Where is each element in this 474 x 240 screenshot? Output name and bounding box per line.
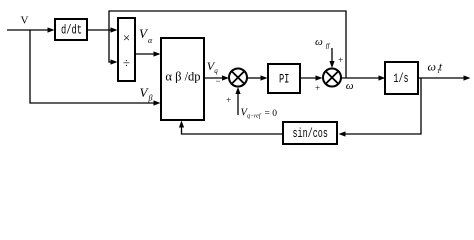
- block 1/s: [385, 62, 418, 94]
- wire V_q output to summing junction 1: [204, 75, 229, 80]
- wire sin/cos to alpha-beta/dp bottom: [179, 121, 283, 135]
- svg-text:β: β: [148, 94, 153, 103]
- wire V_q-ref input: [235, 87, 240, 115]
- wire V_alpha output: [135, 51, 161, 56]
- label omega_ff: [315, 36, 331, 50]
- svg-text:1/s: 1/s: [393, 71, 408, 86]
- svg-text:+: +: [226, 95, 231, 105]
- label V_q-ref = 0: [241, 108, 278, 120]
- block PI: [268, 64, 300, 93]
- svg-text:ω: ω: [315, 36, 323, 48]
- label V_alpha: [139, 26, 153, 45]
- wire omega_ff input: [329, 48, 334, 68]
- svg-text:q−ref: q−ref: [247, 113, 262, 120]
- summing junction 1: [229, 69, 247, 87]
- svg-text:+: +: [338, 55, 343, 65]
- label V_q: [207, 59, 219, 75]
- svg-text:ω: ω: [346, 80, 354, 92]
- svg-text:+: +: [315, 83, 320, 93]
- wire output omega_1 t: [418, 75, 471, 80]
- svg-text:ω: ω: [428, 60, 436, 74]
- block sin/cos: [283, 122, 337, 144]
- wire V branch to V_beta input: [30, 30, 161, 106]
- block multiplier-divider: [118, 18, 135, 81]
- svg-text:d/dt: d/dt: [61, 24, 82, 38]
- svg-text:α β /dp: α β /dp: [165, 70, 200, 84]
- svg-text:÷: ÷: [123, 56, 130, 71]
- wire summing junction 1 to PI: [248, 75, 268, 80]
- svg-text:−: −: [216, 76, 221, 86]
- svg-text:= 0: = 0: [265, 109, 278, 119]
- wire omega feedback top line to divider input: [109, 11, 346, 78]
- wire V input: [7, 27, 55, 32]
- label V_beta: [140, 85, 153, 103]
- svg-text:q: q: [214, 67, 218, 75]
- wire branch down to sin/cos: [339, 78, 422, 137]
- svg-text:V: V: [21, 15, 29, 27]
- label omega_1 t: [428, 60, 443, 76]
- wire d/dt to multiplier: [87, 27, 118, 32]
- svg-text:×: ×: [123, 30, 130, 45]
- wire PI to summing junction 2: [300, 75, 323, 80]
- block alpha-beta/dp transform: [161, 38, 204, 120]
- block d/dt: [55, 19, 87, 40]
- svg-text:sin/cos: sin/cos: [293, 127, 328, 141]
- summing junction 2: [323, 69, 341, 87]
- wire summing junction 2 to 1/s: [342, 75, 386, 80]
- svg-text:PI: PI: [279, 73, 290, 87]
